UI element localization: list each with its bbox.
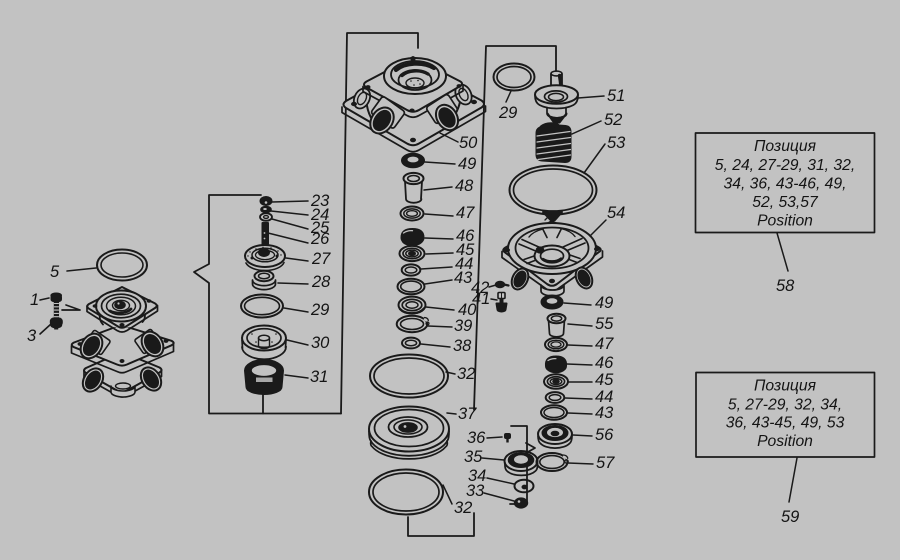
part 52 spring — [537, 123, 571, 162]
svg-text:5: 5 — [50, 263, 60, 281]
svg-text:47: 47 — [456, 204, 475, 222]
leader 33 — [484, 493, 514, 501]
part 54 body : spokes — [519, 229, 585, 264]
part 50 cover : top boss — [384, 58, 446, 94]
o-ring 5 — [97, 250, 147, 281]
leader 34 — [487, 478, 514, 484]
valve body left : right port — [134, 328, 168, 361]
svg-text:54: 54 — [607, 204, 625, 222]
bracket right column 51-57 — [474, 46, 556, 410]
valve body left : mid flange holes — [78, 339, 169, 363]
part 42 screw — [496, 282, 509, 288]
svg-text:Позиция: Позиция — [754, 378, 817, 395]
o-ring 29 top right — [494, 64, 535, 91]
svg-text:52: 52 — [604, 111, 622, 129]
part 49 seal ring — [402, 154, 424, 168]
svg-text:49: 49 — [595, 294, 613, 312]
svg-text:52, 53,57: 52, 53,57 — [752, 194, 819, 211]
leader 41 — [491, 299, 497, 300]
leader 49 — [425, 162, 455, 164]
leader 47 — [425, 214, 453, 216]
leader 35 — [482, 458, 504, 460]
part 24 washer — [261, 207, 271, 213]
svg-text:33: 33 — [466, 482, 485, 500]
part 55 sleeve — [548, 314, 566, 337]
svg-text:50: 50 — [459, 134, 478, 152]
leader 29 — [284, 308, 308, 312]
valve body left : bottom stub — [111, 383, 135, 397]
box 59 text — [726, 378, 845, 451]
leader 57 right — [568, 463, 593, 464]
svg-text:30: 30 — [311, 334, 330, 352]
svg-text:49: 49 — [458, 155, 476, 173]
part 38 ring — [402, 338, 420, 349]
leader 47 right — [568, 345, 592, 346]
part 46 right cap — [546, 357, 566, 373]
part 54 body : center boss — [535, 246, 570, 267]
part 57 snap ring — [537, 453, 571, 471]
leader 39 — [428, 326, 452, 327]
leader 50 — [440, 133, 458, 142]
bolt 1 head — [51, 294, 61, 302]
leader 45 right — [569, 381, 592, 383]
valve body left : bottom left port — [79, 365, 108, 396]
valve body left : waist occluder — [100, 306, 145, 328]
part 45 right ring assy — [544, 374, 568, 388]
leader 55 — [568, 324, 592, 326]
svg-text:48: 48 — [455, 177, 474, 195]
leader 52 — [572, 121, 601, 134]
leader 26 — [268, 233, 308, 243]
part 45 ring assy — [400, 246, 425, 261]
svg-text:36, 43-45, 49, 53: 36, 43-45, 49, 53 — [726, 415, 845, 432]
leader 54 — [590, 220, 606, 236]
leader 44 right — [565, 398, 592, 399]
svg-text:37: 37 — [458, 405, 477, 423]
leader 43 — [425, 280, 452, 284]
part 50 cover : left port — [365, 96, 405, 138]
part 26 rod — [263, 223, 269, 244]
part 40 ring assy — [399, 297, 426, 314]
part 31 rubber bushing — [245, 360, 283, 394]
leader 56 right — [573, 435, 592, 436]
bracket tall line to part 50 — [341, 33, 418, 414]
leader 46 right — [567, 364, 592, 365]
leader 53 — [584, 144, 605, 173]
part 54 body : left port — [508, 266, 531, 292]
part 35 cap — [505, 451, 538, 475]
svg-text:28: 28 — [311, 273, 331, 291]
leader 28 — [278, 283, 308, 284]
leader 3 — [40, 324, 51, 334]
bracket group 23-31 with brace tick — [194, 195, 341, 414]
part 28 cup — [253, 271, 276, 290]
svg-text:Position: Position — [757, 213, 813, 230]
svg-text:43: 43 — [595, 404, 614, 422]
svg-text:29: 29 — [310, 301, 329, 319]
leader 42 — [489, 285, 496, 287]
stub from part 31 to bracket — [262, 394, 264, 414]
svg-text:56: 56 — [595, 426, 614, 444]
part 51 guide : disc — [535, 85, 578, 122]
part 48 sleeve — [404, 173, 424, 203]
svg-text:34, 36, 43-46, 49,: 34, 36, 43-46, 49, — [724, 176, 847, 193]
part 27 diaphragm plate — [245, 245, 285, 271]
leader 30 — [287, 340, 308, 345]
svg-text:35: 35 — [464, 448, 483, 466]
washer nut 3 — [51, 319, 62, 330]
part 39 snap ring — [397, 316, 431, 332]
part 54 body : rim rings — [508, 223, 596, 274]
leader 38 — [421, 344, 450, 347]
part 50 cover : body silhouette — [366, 83, 461, 127]
part 54 body : top seat — [543, 212, 562, 220]
leader 25 — [272, 219, 308, 229]
part 30 cup with stem — [242, 326, 286, 360]
bolt 1 shank threaded — [54, 301, 59, 320]
o-ring 29 mid — [241, 295, 283, 318]
part 43 right ring — [541, 405, 567, 419]
part 47 right ring — [545, 338, 567, 351]
svg-text:57: 57 — [596, 454, 615, 472]
o-ring 32 lower — [369, 470, 443, 515]
part 54 body : flange holes — [504, 247, 600, 284]
svg-text:55: 55 — [595, 315, 614, 333]
part 46 cap — [401, 229, 423, 245]
valve body left : top flange — [87, 287, 158, 332]
o-ring 32 upper — [370, 355, 448, 398]
valve body left : flange holes — [93, 299, 152, 327]
svg-text:51: 51 — [607, 87, 625, 105]
leader 58 — [777, 233, 788, 271]
svg-text:45: 45 — [595, 371, 614, 389]
svg-text:31: 31 — [310, 368, 328, 386]
part 50 cover : flange holes — [351, 58, 477, 143]
svg-text:58: 58 — [776, 277, 795, 295]
valve body left : bottom right port — [137, 364, 166, 395]
part 54 body : flange — [502, 221, 603, 291]
part 36 screw — [505, 434, 510, 443]
part 41 bolt — [497, 293, 507, 312]
leader 43 right — [568, 413, 592, 414]
part 44 ring — [402, 264, 421, 275]
part 25 washer — [260, 213, 272, 221]
leader 23 — [272, 201, 308, 202]
part 44 right ring — [546, 392, 565, 403]
part 50 cover : rear right port — [452, 79, 475, 107]
svg-text:5, 27-29, 32, 34,: 5, 27-29, 32, 34, — [728, 397, 842, 414]
part 50 cover : rear left port — [351, 82, 374, 111]
part 56 cup assy — [538, 424, 572, 448]
svg-text:47: 47 — [595, 335, 614, 353]
part 37 piston — [369, 407, 449, 459]
svg-text:46: 46 — [595, 354, 614, 372]
leader 24 — [271, 211, 308, 215]
svg-text:59: 59 — [781, 508, 799, 526]
box 58 text — [715, 138, 855, 230]
part 51 guide : stem — [551, 71, 562, 98]
svg-text:38: 38 — [453, 337, 472, 355]
svg-text:1: 1 — [30, 291, 39, 309]
svg-text:39: 39 — [454, 317, 472, 335]
leader 5 — [67, 268, 96, 271]
part 34 disc — [515, 480, 534, 493]
box 58 — [696, 133, 875, 233]
valve body left : left port — [76, 330, 111, 363]
svg-text:32: 32 — [457, 365, 475, 383]
svg-text:53: 53 — [607, 134, 626, 152]
bracket group 33-36 — [510, 426, 527, 504]
svg-text:5, 24, 27-29, 31, 32,: 5, 24, 27-29, 31, 32, — [715, 157, 855, 174]
bracket bottom U under part 32 — [408, 513, 474, 536]
leader 36 — [487, 437, 502, 438]
valve body left : lower body — [84, 352, 162, 397]
leader 37 — [447, 413, 456, 414]
o-ring 53 — [510, 166, 597, 215]
svg-text:Position: Position — [757, 433, 813, 450]
leader 32 upper — [446, 372, 455, 374]
svg-text:32: 32 — [454, 499, 472, 517]
part 54 body : right port — [572, 265, 595, 291]
leader 48 — [424, 187, 452, 190]
svg-text:26: 26 — [310, 230, 330, 248]
part 33 ball — [515, 498, 527, 507]
part 50 cover : body occluder — [363, 52, 463, 136]
assembly arrow left — [62, 305, 80, 310]
arrow to part 56 — [526, 443, 535, 453]
box 59 — [696, 373, 875, 458]
part 50 cover : bottom flange — [342, 64, 486, 152]
leader 49 right — [564, 303, 591, 305]
leader 27 — [286, 258, 308, 261]
part 47 ring — [401, 207, 424, 221]
leader 29 top right — [506, 91, 511, 102]
leader 40 — [426, 307, 454, 310]
svg-text:Позиция: Позиция — [754, 138, 817, 155]
leader 32 lower — [443, 485, 452, 504]
part 50 cover : right port — [426, 94, 463, 135]
part 54 body : bottom stub — [541, 285, 564, 296]
valve body left : mid flange — [72, 325, 174, 373]
leader 45 — [426, 253, 453, 254]
svg-text:27: 27 — [311, 250, 331, 268]
part 49 right seal ring — [542, 296, 563, 309]
svg-text:36: 36 — [467, 429, 486, 447]
leader 46 — [425, 238, 453, 239]
leader 59 — [789, 458, 797, 502]
valve body left : top boss rings — [96, 291, 146, 322]
svg-text:29: 29 — [498, 104, 517, 122]
svg-text:3: 3 — [27, 327, 37, 345]
leader 51 — [578, 96, 604, 98]
part 50 cover : top flange — [363, 57, 463, 117]
leader 31 — [285, 375, 308, 378]
leader 1 — [40, 298, 49, 300]
leader 44 — [421, 267, 452, 269]
part 23 nut — [261, 197, 272, 205]
part 43 ring — [398, 279, 425, 295]
